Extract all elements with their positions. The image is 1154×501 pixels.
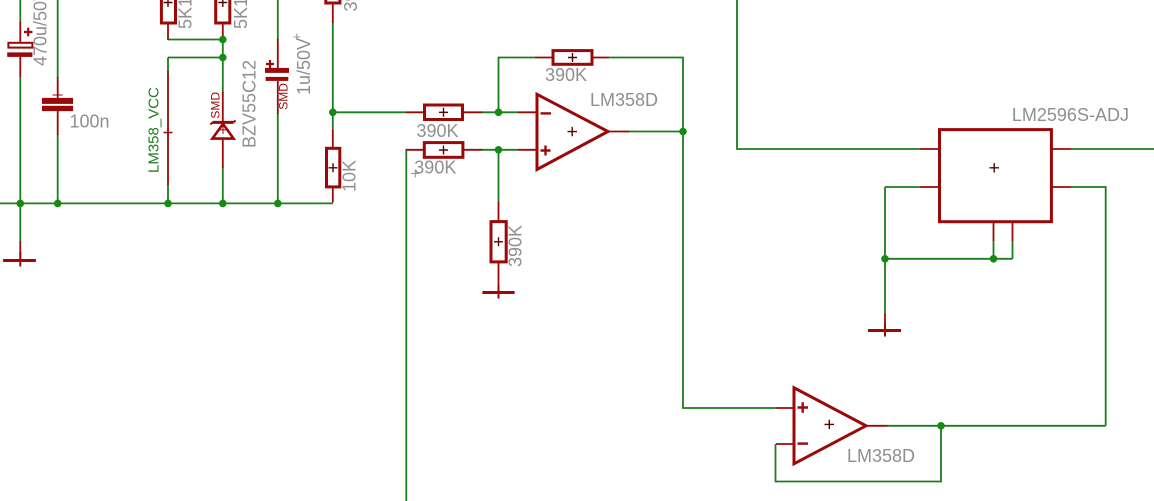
node block adj left [881,255,889,263]
pin zener bottom lead [222,139,224,168]
pin R390K-2 leads [406,149,425,151]
wire bottom bus [0,202,333,204]
wire input2 vertical from bottom edge [405,150,408,501]
pin vcc supply bar [167,71,169,185]
svg-text:390K: 390K [341,0,361,12]
pin 1u bottom lead [277,81,279,114]
capacitor C1 470u/50V [7,28,32,57]
pin 100n bottom lead [57,111,59,135]
pin 100n top lead [57,77,59,98]
wire block right pin1 to edge [1071,148,1154,150]
pin block left1 [920,148,940,150]
wire 390Ktop to node [332,23,334,132]
resistor R8 390K to gnd [491,222,506,262]
resistor R2 5K1 [216,0,230,23]
pin block bottom2 [1012,222,1014,241]
pin R390K-gnd top lead [498,202,500,222]
pin 5K1b bottom lead [222,23,224,40]
pin zener top lead [222,92,224,122]
node opamp1 output [679,128,687,136]
wire block left pin2 [885,186,920,188]
wire block left pin2 down [884,187,886,259]
op-amp U2 LM358D [794,388,866,464]
pin 5K1a bottom lead [167,23,169,40]
svg-text:5K1: 5K1 [176,0,196,29]
wire feedback right [609,58,683,132]
ground G1 [3,252,36,267]
svg-text:390K: 390K [545,65,587,85]
resistor R7 390K feedback [553,51,592,65]
capacitor C2 100n [42,90,73,111]
pin opamp2 output [866,425,888,427]
ground G2 [482,285,514,299]
resistor R6 390K input2 [424,143,463,158]
svg-text:BZV55C12: BZV55C12 [240,60,260,148]
pin block right1 [1051,148,1071,150]
pin opamp2 plus [776,407,794,409]
svg-text:LM358D: LM358D [590,90,658,110]
wire vcc supply top [167,58,169,73]
pin block bottom1 [993,222,995,241]
IC U3 LM2596S-ADJ [940,130,1052,222]
ground G3 [868,323,901,337]
diode D1 zener BZV55C12 [211,120,236,138]
wire gnd3 vertical [884,259,886,315]
node bus-100n [54,200,62,208]
wire 470u bottom to bus and gnd [19,76,21,242]
wire block bottom pin stubs [993,241,995,259]
pin 10K top lead [332,130,334,149]
resistor R4 10K [327,148,340,187]
node bus-vcc [164,200,172,208]
resistor R5 390K input1 [425,105,463,120]
pin gnd1 lead [19,241,21,259]
node divider mid [329,109,337,117]
svg-text:100n: 100n [70,112,110,132]
wire opamp2 output to right [888,425,1106,427]
wire block bottom node [885,258,1013,260]
wire feedback left vertical [499,58,536,113]
svg-text:LM358_VCC: LM358_VCC [146,87,163,173]
node opamp1 noninverting [495,146,503,154]
node opamp2 output feedback [937,422,945,430]
svg-text:390K: 390K [414,158,456,178]
wire 1u top [277,0,279,40]
wire 470u top [19,0,21,23]
pin R390K-gnd bottom lead [498,262,500,291]
wire 1u bottom [277,113,279,203]
svg-text:390K: 390K [506,225,526,267]
wire zener vertical bottom [222,167,224,203]
node bus-zener [219,200,227,208]
node vcc-zener [219,54,227,62]
pin R390K-fb leads [535,57,554,59]
svg-text:SMD: SMD [209,92,223,119]
pin opamp1 output [608,131,629,133]
pin 1u top lead [277,39,279,68]
node bus-470u [17,200,25,208]
svg-text:1u/50V: 1u/50V [294,38,314,95]
pin opamp1 minus [518,111,537,113]
wire vcc supply bottom [167,184,169,203]
resistor R3 390K top cut [326,0,340,3]
wire 100n bottom [57,134,59,203]
svg-text:LM358D: LM358D [847,446,915,466]
wire node2 down to R390K-gnd [498,150,500,203]
pin opamp2 minus [776,443,794,445]
wire 5K1a to zener node [168,39,223,41]
svg-text:5K1: 5K1 [231,0,251,29]
pin 470u bottom lead [19,57,21,78]
pin opamp1 plus [518,149,537,151]
wire zener vertical top [222,40,224,94]
pin R390K-1 leads [406,111,425,113]
pin block right2 [1051,186,1071,188]
pin 10K bottom lead [332,186,334,202]
node bus-1u [274,200,282,208]
svg-text:+: + [293,29,301,44]
resistor R1 5K1 [161,0,175,23]
wire right vertical from block pin [1071,187,1106,426]
wire R390K-1 to opamp node [481,111,518,113]
node block bottom [990,255,998,263]
wire 100n top [57,0,59,78]
wire opamp1 output [628,131,683,133]
svg-text:LM2596S-ADJ: LM2596S-ADJ [1012,105,1129,125]
pin 390Ktop bottom lead [332,3,334,23]
svg-text:SMD: SMD [277,83,291,110]
capacitor C3 1u/50V [265,60,289,81]
svg-text:10K: 10K [340,160,360,192]
wire node to R390K-1 [333,111,406,113]
pin 470u top lead [19,22,21,43]
label r6 origin cross [411,170,419,178]
pin gnd3 lead [884,314,886,330]
wire opamp1 output down [683,132,776,409]
pin block left2 [920,186,940,188]
node opamp1 inverting [495,109,503,117]
wire block left pin1 from top edge [737,0,920,149]
wire R390K-2 to opamp node [481,149,518,151]
node 5K1a-zener [219,36,227,44]
wire vcc to zener node [168,57,223,59]
wire opamp2 minus feedback [776,426,942,482]
op-amp U1 LM358D [537,94,608,169]
svg-text:390K: 390K [417,121,459,141]
svg-text:470u/50V: 470u/50V [31,0,51,66]
